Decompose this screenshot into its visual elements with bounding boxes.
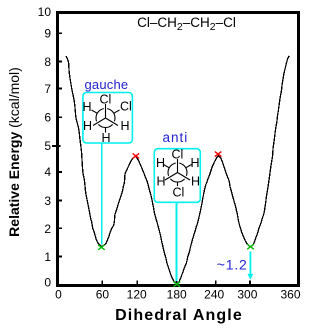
anti box <box>154 149 200 203</box>
y-axis tick 6 <box>59 116 63 118</box>
red X marker max 240 <box>215 152 222 157</box>
svg-text:360: 360 <box>280 288 300 302</box>
gauche connector line <box>101 144 103 245</box>
svg-text:Relative Energy (kcal/mol): Relative Energy (kcal/mol) <box>6 67 22 237</box>
y-axis tick 1 <box>59 256 63 258</box>
anti newman projection <box>164 159 192 186</box>
green X marker min 60 <box>98 245 105 250</box>
svg-text:H: H <box>83 119 92 133</box>
svg-text:H: H <box>157 175 166 189</box>
svg-text:Dihedral Angle: Dihedral Angle <box>115 307 243 324</box>
y-axis tick 8 <box>59 61 63 63</box>
svg-text:10: 10 <box>38 5 52 19</box>
svg-text:0: 0 <box>55 288 62 302</box>
gauche box <box>83 93 132 144</box>
x-axis tick 120 <box>136 281 138 285</box>
svg-text:9: 9 <box>44 27 51 41</box>
energy curve <box>66 56 289 284</box>
x-axis tick 300 <box>249 281 251 285</box>
gauche newman projection <box>92 104 120 133</box>
svg-text:6: 6 <box>44 111 51 125</box>
x tick labels <box>55 288 301 302</box>
svg-text:H: H <box>191 156 200 170</box>
svg-text:120: 120 <box>127 288 147 302</box>
svg-text:H: H <box>191 175 200 189</box>
svg-text:5: 5 <box>44 139 51 153</box>
svg-text:180: 180 <box>167 288 187 302</box>
svg-text:H: H <box>83 100 92 114</box>
y-axis tick 3 <box>59 200 63 202</box>
y-axis tick 7 <box>59 88 63 90</box>
x-axis tick 240 <box>215 281 217 285</box>
down arrow at 300 min <box>248 252 254 280</box>
svg-text:3: 3 <box>44 194 51 208</box>
svg-text:7: 7 <box>44 82 51 96</box>
svg-text:Cl: Cl <box>100 93 112 107</box>
svg-text:H: H <box>156 156 165 170</box>
svg-text:8: 8 <box>44 55 51 69</box>
y-axis tick 5 (major) <box>52 145 61 147</box>
svg-text:H: H <box>121 119 130 133</box>
svg-text:Cl: Cl <box>173 186 185 200</box>
svg-text:anti: anti <box>163 130 189 145</box>
y-axis tick 4 <box>59 171 63 173</box>
anti connector line <box>176 203 178 282</box>
x-axis tick 180 <box>176 281 178 285</box>
green X marker min 300 <box>247 244 254 249</box>
x-axis tick 60 <box>101 281 103 285</box>
svg-text:Cl: Cl <box>120 100 132 114</box>
svg-text:1: 1 <box>44 250 51 264</box>
svg-text:300: 300 <box>237 288 257 302</box>
svg-text:H: H <box>102 131 111 145</box>
green X marker min 180 <box>174 282 181 287</box>
red X marker max 120 <box>133 153 140 158</box>
svg-text:gauche: gauche <box>85 77 129 92</box>
svg-text:4: 4 <box>44 165 51 179</box>
svg-text:240: 240 <box>204 288 224 302</box>
plot border frame <box>58 13 299 286</box>
svg-text:Cl: Cl <box>172 148 184 162</box>
svg-text:2: 2 <box>44 222 51 236</box>
y tick labels <box>38 5 52 290</box>
svg-text:0: 0 <box>44 276 51 290</box>
svg-text:60: 60 <box>96 288 110 302</box>
y-axis tick 9 <box>59 32 63 34</box>
svg-text:~1.2: ~1.2 <box>217 257 248 273</box>
y-axis tick 2 <box>59 227 63 229</box>
